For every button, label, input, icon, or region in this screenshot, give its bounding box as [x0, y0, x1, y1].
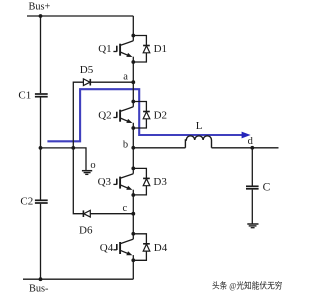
clamp diode D6 branch wire	[73, 148, 133, 214]
capacitor C1	[35, 94, 48, 97]
wire d to capacitor C	[251, 148, 253, 186]
node b	[131, 146, 135, 150]
svg-text:D3: D3	[153, 176, 167, 188]
junction dot midpoint at clamp branch	[71, 146, 75, 150]
svg-text:Q2: Q2	[98, 109, 111, 121]
svg-text:a: a	[123, 72, 128, 83]
transistor Q2	[113, 107, 133, 123]
blue arrowhead at node d	[242, 132, 251, 139]
svg-text:L: L	[196, 120, 203, 132]
diode D2	[133, 102, 150, 129]
capacitor C2	[35, 200, 48, 203]
blue current path from node o through D5, Q2 to output d	[47, 89, 242, 141]
svg-text:C1: C1	[18, 89, 31, 101]
junction dot at Bus+	[39, 14, 43, 18]
inductor L	[185, 136, 211, 148]
midpoint wire from bus to ground tap	[41, 148, 87, 171]
Bus+ rail	[27, 15, 133, 17]
main leg wire segments	[132, 16, 134, 279]
svg-text:d: d	[248, 136, 254, 147]
ground at node o	[82, 171, 92, 175]
wire capacitor C to ground	[251, 190, 253, 224]
svg-text:Bus-: Bus-	[29, 284, 49, 295]
svg-text:o: o	[90, 160, 95, 171]
capacitor C	[246, 186, 259, 189]
output wire inductor to right end	[212, 147, 279, 149]
svg-text:Q3: Q3	[98, 176, 112, 188]
left DC bus wire middle segment	[40, 98, 42, 200]
junction dot at Bus-	[39, 277, 43, 281]
junction dot Q2 collector	[131, 100, 135, 104]
junction dot Q4 emitter	[131, 258, 135, 262]
ground below C	[247, 224, 258, 228]
clamp diode D6	[83, 210, 90, 217]
output wire b to inductor	[133, 147, 185, 149]
clamp diode D5 branch wire	[73, 82, 133, 148]
junction dot Q1 collector	[131, 34, 135, 38]
transistor Q4	[113, 239, 133, 255]
svg-text:D6: D6	[79, 225, 93, 237]
transistor Q3	[113, 174, 133, 190]
junction dot Q4 collector	[131, 232, 135, 236]
node d	[250, 146, 254, 150]
junction dot Q2 emitter	[131, 126, 135, 130]
svg-text:b: b	[123, 140, 128, 151]
diode D3	[133, 168, 150, 195]
junction dot Q3 emitter	[131, 193, 135, 197]
transistor Q1	[113, 41, 133, 57]
svg-text:Bus+: Bus+	[29, 2, 51, 13]
junction dot Q1 emitter	[131, 60, 135, 64]
diode D1	[133, 36, 150, 63]
node a	[131, 80, 135, 84]
svg-text:D1: D1	[154, 43, 167, 55]
diode D4	[133, 234, 150, 260]
node c	[131, 212, 135, 216]
svg-text:D2: D2	[154, 109, 167, 121]
svg-text:Q1: Q1	[98, 43, 111, 55]
left DC bus wire upper segment	[40, 16, 42, 93]
junction dot midpoint at bus	[39, 146, 43, 150]
svg-text:c: c	[123, 203, 128, 214]
clamp diode D5	[83, 79, 90, 86]
svg-text:Q4: Q4	[100, 242, 114, 254]
left DC bus wire lower segment	[40, 204, 42, 279]
svg-text:D5: D5	[80, 64, 94, 76]
svg-text:D4: D4	[154, 242, 168, 254]
svg-text:C2: C2	[20, 196, 33, 208]
svg-text:头条 @光知能伏无穷: 头条 @光知能伏无穷	[212, 280, 283, 290]
svg-text:C: C	[263, 182, 271, 194]
junction dot Q3 collector	[131, 167, 135, 171]
Bus- rail	[23, 278, 133, 280]
